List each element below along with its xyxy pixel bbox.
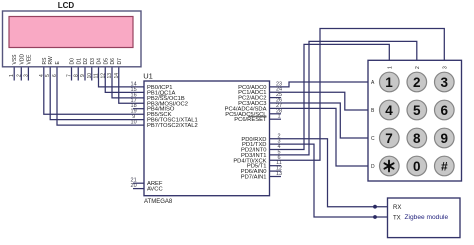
svg-text:10: 10	[87, 73, 93, 79]
svg-text:11: 11	[94, 73, 100, 78]
svg-text:1: 1	[387, 66, 393, 69]
svg-text:12: 12	[100, 73, 106, 79]
svg-text:PD7/AIN1: PD7/AIN1	[241, 175, 267, 181]
svg-text:7: 7	[385, 131, 393, 146]
svg-text:TX: TX	[393, 216, 401, 222]
svg-text:D0: D0	[70, 58, 76, 65]
svg-text:10: 10	[131, 120, 137, 126]
svg-text:2: 2	[415, 66, 421, 69]
svg-text:9: 9	[441, 131, 449, 146]
svg-text:6: 6	[52, 74, 58, 77]
svg-text:VDD: VDD	[19, 54, 25, 65]
svg-text:14: 14	[114, 73, 120, 79]
svg-text:RS: RS	[42, 57, 48, 65]
svg-text:13: 13	[107, 73, 113, 79]
svg-text:8: 8	[413, 131, 421, 146]
svg-text:D1: D1	[76, 58, 82, 65]
svg-text:ATMEGA8: ATMEGA8	[144, 199, 173, 205]
svg-text:D6: D6	[110, 58, 116, 65]
svg-text:7: 7	[67, 74, 73, 77]
svg-text:2: 2	[413, 75, 421, 90]
svg-text:0: 0	[413, 159, 421, 174]
svg-text:D7: D7	[117, 58, 123, 65]
svg-text:AVCC: AVCC	[147, 187, 163, 193]
svg-text:VEE: VEE	[26, 54, 32, 65]
svg-text:5: 5	[45, 74, 51, 77]
svg-text:Zigbee module: Zigbee module	[405, 214, 449, 221]
svg-text:3: 3	[442, 66, 448, 69]
svg-text:#: #	[441, 160, 448, 174]
svg-text:1: 1	[9, 74, 15, 77]
svg-text:D4: D4	[97, 58, 103, 65]
svg-text:C: C	[371, 136, 375, 142]
svg-text:4: 4	[39, 74, 45, 77]
svg-text:9: 9	[80, 74, 86, 77]
svg-text:LCD: LCD	[58, 1, 75, 10]
svg-text:3: 3	[23, 74, 29, 77]
svg-text:13: 13	[276, 171, 282, 177]
svg-text:D2: D2	[83, 58, 89, 65]
svg-text:D: D	[371, 164, 375, 170]
svg-text:D3: D3	[90, 58, 96, 65]
svg-text:3: 3	[441, 75, 449, 90]
svg-text:PB7/TOSC2/XTAL2: PB7/TOSC2/XTAL2	[147, 123, 198, 129]
svg-text:D5: D5	[103, 58, 109, 65]
svg-text:6: 6	[441, 103, 449, 118]
svg-text:1: 1	[277, 114, 280, 120]
svg-text:1: 1	[385, 75, 393, 90]
svg-text:8: 8	[73, 74, 79, 77]
svg-text:5: 5	[413, 103, 421, 118]
svg-text:20: 20	[131, 183, 137, 189]
svg-text:U1: U1	[143, 71, 153, 80]
svg-text:2: 2	[16, 74, 22, 77]
svg-text:PC6/RESET: PC6/RESET	[234, 117, 267, 123]
svg-text:VSS: VSS	[12, 54, 18, 65]
svg-text:4: 4	[385, 103, 393, 118]
svg-text:RW: RW	[48, 56, 54, 65]
svg-text:RX: RX	[393, 205, 401, 211]
